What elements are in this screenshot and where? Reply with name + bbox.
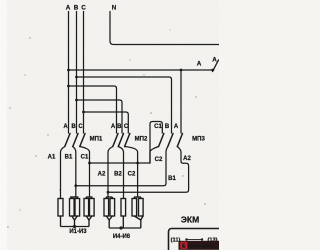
svg-text:В1: В1 (65, 155, 73, 161)
phase line B (76, 12, 78, 134)
phase line C (83, 12, 85, 134)
svg-text:ЭКМ: ЭКМ (181, 215, 199, 225)
svg-text:И4-И6: И4-И6 (113, 234, 131, 240)
svg-text:А: А (197, 61, 202, 68)
svg-text:А: А (66, 5, 71, 12)
contactor MP2 contacts (113, 134, 130, 147)
heater pair I3 (86, 196, 93, 198)
wire I4-I6 star (106, 216, 112, 220)
svg-text:А: А (174, 124, 179, 130)
heater box I1 (58, 199, 63, 217)
svg-text:С: С (81, 5, 86, 12)
wire MP3 out A2 link (108, 147, 189, 193)
heater box I5 (121, 199, 126, 217)
svg-text:С2: С2 (155, 157, 163, 163)
svg-text:А1: А1 (48, 155, 56, 161)
wire MP1 out B1 (73, 147, 76, 198)
svg-text:E: E (182, 244, 186, 250)
svg-text:N: N (112, 5, 117, 12)
svg-text:МП1: МП1 (90, 137, 103, 143)
EKM pressure gauge block (169, 215, 225, 250)
svg-text:В: В (117, 124, 122, 130)
wire MP1 out A1 (61, 147, 65, 199)
paper background (0, 0, 219, 250)
heater group I1-I3 (58, 197, 94, 227)
wire C1 feeder to MP3 (90, 162, 151, 164)
svg-text:А: А (212, 57, 217, 64)
svg-text:Electric House: Electric House (190, 244, 212, 248)
labels (66, 5, 218, 68)
svg-text:В2: В2 (114, 172, 122, 178)
EKM contact dots (185, 238, 187, 240)
svg-text:С2: С2 (128, 172, 136, 178)
svg-text:МП3: МП3 (192, 137, 205, 143)
wire branch A to MP2 (69, 86, 117, 133)
svg-text:А2: А2 (98, 172, 106, 178)
wire branch A to MP3 and right edge (69, 69, 214, 71)
svg-text:В: В (74, 5, 79, 12)
EKM box (169, 229, 225, 250)
svg-text:И1-И3: И1-И3 (69, 229, 87, 235)
wire I1-I3 star (60, 216, 62, 227)
contactor MP1 contacts (65, 134, 85, 147)
wire MP3 out C2 link (150, 147, 159, 164)
wire MP2 out A2 (108, 147, 113, 198)
wire MP3 out B1 link (76, 147, 168, 186)
svg-text:А: А (111, 124, 116, 130)
wire branch B to MP2 (77, 100, 123, 133)
wire MP3 A drop (180, 70, 182, 133)
neutral line N (110, 12, 219, 45)
wire MP2 out B2 (118, 147, 123, 199)
svg-text:С1: С1 (81, 155, 89, 161)
svg-text:С1: С1 (154, 124, 162, 130)
heater pair I6 (134, 196, 141, 198)
svg-text:С: С (78, 124, 83, 130)
svg-text:МП2: МП2 (135, 137, 148, 143)
svg-text:В1: В1 (168, 176, 176, 182)
heater pair I2 (70, 196, 79, 198)
watermark logo Electric House (179, 241, 220, 250)
contactor MP3 contacts (159, 134, 183, 147)
wire branch B to MP3 (77, 77, 172, 133)
svg-text:А: А (63, 124, 68, 130)
wire break slash A (213, 60, 219, 72)
wire MP1 out C1 (80, 147, 90, 198)
wire MP2 out C2 (125, 147, 138, 198)
heater pair I4 (106, 196, 112, 198)
svg-text:В: В (71, 124, 76, 130)
wire C1 staple MP3 (150, 122, 162, 164)
svg-text:А2: А2 (183, 156, 191, 162)
wire branch C to MP2 (84, 112, 129, 133)
svg-text:С: С (124, 124, 129, 130)
heater group I4-I6 (104, 197, 143, 228)
svg-text:В: В (165, 124, 170, 130)
phase line A (68, 12, 70, 134)
